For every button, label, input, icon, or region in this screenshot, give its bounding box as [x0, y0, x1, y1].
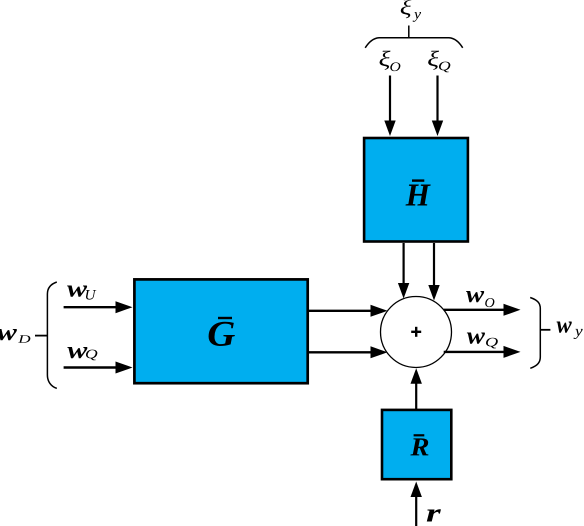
wire summing junction to w_O output — [444, 304, 521, 316]
label r — [427, 509, 441, 521]
label R-bar — [410, 435, 428, 455]
label G-bar — [209, 318, 235, 346]
label xi_Y (top noise vector) — [401, 0, 421, 22]
block R-bar — [382, 410, 451, 479]
block G-bar — [134, 279, 307, 383]
brace right grouping w_O and w_Q outputs — [530, 298, 540, 369]
tick brace to w_Y — [541, 329, 551, 331]
label w_Q output — [467, 332, 498, 348]
wire G-bar to summing junction (top) — [309, 305, 388, 317]
label w_U — [67, 285, 96, 299]
label w_D — [0, 329, 30, 343]
wire summing junction to w_Q output — [444, 346, 521, 358]
top brace grouping xi_O and xi_Q — [365, 38, 463, 48]
label H-bar — [406, 181, 431, 206]
label xi_Q — [428, 51, 450, 73]
block H-bar — [364, 138, 468, 242]
label w_Q — [67, 347, 97, 360]
wire xi_O into H-bar — [384, 76, 395, 137]
label w_O — [466, 291, 494, 307]
wire G-bar to summing junction (bottom) — [309, 346, 388, 358]
plus sign — [411, 327, 421, 337]
wire R-bar to summing junction — [411, 368, 422, 409]
label xi_O — [380, 51, 401, 71]
tick from xi_Y to top brace — [408, 26, 410, 38]
wire xi_Q into H-bar — [432, 76, 443, 137]
wire r into R-bar — [411, 482, 422, 526]
summing junction — [381, 297, 452, 368]
wire w_Q into G-bar — [64, 362, 133, 374]
wire H-bar to summing junction (left) — [398, 243, 409, 299]
tick w_D to brace — [35, 335, 47, 337]
brace left grouping w_U and w_Q — [47, 282, 56, 388]
label w_Y — [557, 321, 583, 339]
wire H-bar to summing junction (right) — [428, 243, 439, 301]
wire w_U into G-bar — [64, 301, 133, 313]
